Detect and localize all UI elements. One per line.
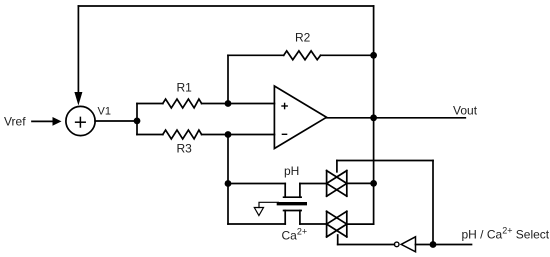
wire R2 left lead bbox=[228, 54, 284, 56]
wire select vertical bbox=[432, 161, 434, 245]
wire S1 output to right column bbox=[347, 182, 374, 184]
analog switch S1 (pH) bowtie bbox=[327, 171, 347, 197]
wire sensor bottom right lead to switch S2 bbox=[300, 223, 327, 225]
junction dot sensor top row bbox=[225, 180, 232, 187]
svg-text:R1: R1 bbox=[177, 81, 193, 95]
wire R2 right lead bbox=[321, 54, 374, 56]
node V1 junction dot bbox=[134, 118, 141, 125]
analog switch S2 (Ca2+) bowtie bbox=[327, 211, 347, 237]
pH gate top plate bbox=[284, 196, 302, 198]
wire top feedback horizontal bbox=[78, 5, 373, 7]
wire reference electrode lead bbox=[259, 202, 278, 207]
inverter U2 bubble bbox=[394, 242, 399, 247]
wire select top horizontal bbox=[337, 160, 433, 162]
wire pH gate right stub bbox=[299, 184, 301, 198]
reference electrode open triangle bbox=[254, 208, 263, 216]
arrowhead Vref into summer bbox=[53, 117, 62, 126]
wire op-amp output to Vout bbox=[327, 117, 466, 119]
wire right vertical feedback column bbox=[373, 6, 375, 224]
junction dot plus input / R2 bbox=[225, 100, 232, 107]
svg-text:R2: R2 bbox=[295, 31, 311, 45]
wire node vertical bbox=[136, 104, 138, 135]
wire node to R3 bbox=[137, 134, 163, 136]
wire S2 control stub bbox=[337, 235, 339, 245]
svg-text:Ca2+: Ca2+ bbox=[282, 227, 308, 243]
plus sign in summer bbox=[76, 117, 86, 127]
wire sensor top right lead to switch S1 bbox=[300, 183, 327, 185]
junction dot S1 right bbox=[370, 180, 377, 187]
wire pH gate left stub bbox=[284, 184, 286, 198]
shared sensing electrode thick bar bbox=[278, 202, 305, 205]
inverter U2 triangle bbox=[401, 237, 415, 252]
junction dot op-amp output bbox=[370, 114, 377, 121]
junction dot R2 right / feedback bbox=[370, 52, 377, 59]
wire inverter input from select node bbox=[416, 244, 472, 246]
wire Ca gate right stub bbox=[299, 211, 301, 225]
resistor R1 bbox=[163, 99, 202, 108]
wire Ca gate left stub bbox=[284, 211, 286, 225]
op-amp U1 triangle bbox=[274, 86, 326, 149]
wire R3 to op-amp minus input bbox=[202, 134, 275, 136]
Ca gate bottom plate bbox=[284, 210, 302, 212]
wire Vref input bbox=[32, 120, 54, 122]
wire inverter output to S2 control bbox=[338, 244, 395, 246]
junction dot minus input / sensor branch bbox=[225, 131, 232, 138]
wire S2 output to right column bbox=[347, 223, 374, 225]
svg-text:pH / Ca2+ Select: pH / Ca2+ Select bbox=[462, 225, 550, 241]
resistor R2 bbox=[284, 51, 321, 60]
wire feedback vertical drop to summer bbox=[77, 6, 79, 93]
resistor R3 bbox=[163, 130, 202, 139]
svg-text:Vout: Vout bbox=[453, 104, 478, 118]
wire R1 to op-amp plus input bbox=[202, 103, 275, 105]
wire node to R1 bbox=[137, 103, 163, 105]
svg-text:V1: V1 bbox=[98, 106, 111, 118]
op-amp plus pin mark bbox=[282, 103, 287, 108]
summing junction circle bbox=[66, 106, 95, 135]
wire S1 control stub bbox=[336, 161, 338, 172]
wire summer output to node bbox=[95, 120, 137, 122]
op-amp minus pin mark bbox=[282, 133, 286, 135]
arrowhead into summing junction bbox=[74, 92, 82, 106]
wire left sensor column vertical bbox=[227, 135, 229, 225]
wire sensor top left lead bbox=[228, 183, 285, 185]
svg-text:pH: pH bbox=[284, 164, 299, 178]
wire R2 left stub bbox=[227, 55, 229, 103]
junction dot select node bbox=[430, 241, 437, 248]
wire sensor bottom left lead bbox=[228, 223, 285, 225]
svg-text:Vref: Vref bbox=[4, 115, 26, 129]
svg-text:R3: R3 bbox=[177, 141, 193, 155]
